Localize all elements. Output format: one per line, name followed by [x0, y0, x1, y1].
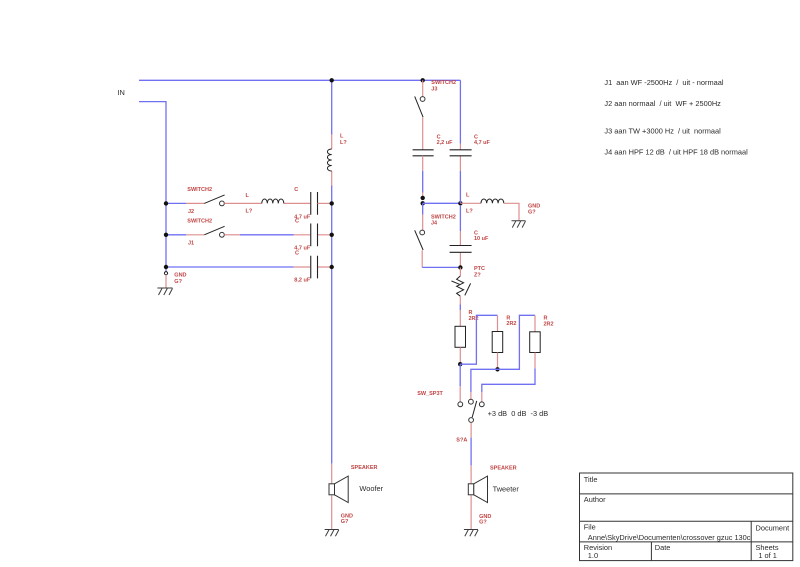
svg-text:SPEAKER: SPEAKER	[351, 465, 378, 471]
PTC pin top	[459, 268, 461, 277]
svg-text:Author: Author	[584, 495, 606, 504]
switch J3 pin top	[422, 80, 424, 96]
svg-text:G?: G?	[341, 519, 349, 525]
ground woofer symbol	[325, 530, 339, 537]
svg-text:2R2: 2R2	[506, 321, 516, 327]
svg-text:C: C	[295, 251, 299, 257]
svg-text:J1: J1	[188, 241, 194, 247]
wire cross link y203	[423, 202, 461, 204]
svg-text:Woofer: Woofer	[359, 484, 383, 493]
svg-text:L?: L?	[466, 209, 473, 215]
wire R2 junction to SP3T middle	[471, 369, 498, 392]
svg-text:SWITCH2: SWITCH2	[187, 218, 212, 224]
capacitor C 2,2uF plates	[413, 150, 434, 156]
capacitor C 4,7uF right pins	[459, 144, 461, 171]
resistor R1 body	[455, 326, 466, 347]
svg-text:2,2 uF: 2,2 uF	[437, 140, 454, 146]
wire R1 junction down to SP3T left	[459, 364, 461, 386]
resistor R3 body	[530, 332, 541, 353]
wire PTC to R1	[459, 305, 461, 311]
resistor R2 pin bottom	[497, 353, 499, 370]
svg-text:J3 aan TW +3000 Hz / uit nor: J3 aan TW +3000 Hz / uit normaal	[604, 127, 721, 136]
capacitor C 4,7uF row J1 plates	[311, 224, 318, 247]
svg-text:Tweeter: Tweeter	[493, 484, 520, 493]
junction dots top bus	[330, 78, 334, 82]
ground left symbol	[157, 288, 172, 295]
junction dots left bus	[164, 201, 168, 205]
switch J3 contact circle	[420, 97, 425, 102]
svg-text:Document: Document	[756, 523, 790, 532]
capacitor C 4,7uF right plates	[450, 150, 472, 156]
wire L to ground	[504, 203, 519, 221]
inductor L coil row J2	[262, 199, 284, 203]
svg-text:1 of 1: 1 of 1	[758, 551, 777, 560]
woofer ground pin	[331, 496, 333, 530]
svg-text:File: File	[584, 522, 596, 531]
switch SW_SP3T blade	[472, 401, 477, 417]
wire R3 bottom to SP3T right	[482, 368, 535, 392]
switch J2 contact circle	[220, 201, 225, 206]
switch J2 blade	[204, 195, 224, 204]
resistor R1 pin bottom	[459, 347, 461, 364]
junction dots x422	[421, 196, 425, 200]
switch J4 contact circle	[420, 230, 425, 235]
PTC Z? zigzag	[457, 276, 464, 296]
svg-text:IN: IN	[118, 88, 125, 97]
svg-text:8,2 uF: 8,2 uF	[294, 278, 311, 284]
wire row J1 left pin	[166, 234, 186, 236]
resistor R3 pin bottom	[534, 353, 536, 369]
wire R2 bottom to R3 top	[498, 315, 536, 369]
junction R2 bottom	[495, 367, 499, 371]
resistor R1 pin top	[459, 310, 461, 326]
ground left terminal circle	[164, 272, 167, 275]
junction R1 bottom	[458, 362, 462, 366]
svg-text:+3 dB 0 dB -3 dB: +3 dB 0 dB -3 dB	[488, 409, 549, 418]
wire row 3	[166, 266, 294, 268]
capacitor C 2,2uF pin bottom	[422, 156, 424, 171]
svg-text:SWITCH2: SWITCH2	[431, 214, 456, 220]
wire row J2 left	[166, 202, 186, 204]
svg-text:L?: L?	[246, 209, 253, 215]
branch L to GND pins	[460, 202, 481, 204]
switch J4 pin top	[422, 203, 424, 214]
svg-text:10 uF: 10 uF	[474, 236, 489, 242]
svg-text:Title: Title	[584, 475, 598, 484]
capacitor C 8,2uF pins	[294, 266, 332, 268]
svg-text:SW_SP3T: SW_SP3T	[417, 391, 443, 397]
junction dots middle bus	[330, 201, 334, 205]
inductor L right coil	[481, 199, 504, 203]
svg-text:J2: J2	[188, 209, 194, 215]
resistor R2 body	[492, 332, 503, 353]
pin to woofer	[331, 464, 333, 484]
svg-text:J3: J3	[431, 87, 437, 93]
switch J2 pin right + inductor L pins	[224, 202, 310, 204]
wire middle bus lower	[331, 186, 333, 464]
switch J4 pin bottom	[421, 250, 423, 267]
switch J2 pin left	[186, 202, 204, 204]
svg-text:C: C	[295, 219, 299, 225]
svg-text:C: C	[294, 187, 298, 193]
switch J1 pin right	[224, 234, 240, 236]
svg-text:G?: G?	[174, 279, 182, 285]
svg-text:G?: G?	[528, 209, 536, 215]
svg-text:SWITCH2: SWITCH2	[431, 80, 456, 86]
capacitor C 8,2uF plates	[311, 256, 318, 279]
title block frame	[580, 473, 793, 561]
wire row J1 middle	[240, 234, 294, 236]
svg-text:PTC: PTC	[474, 266, 485, 272]
tweeter ground pin	[470, 496, 472, 530]
capacitor C 10uF plates	[450, 246, 472, 253]
speaker SPEAKER woofer	[329, 484, 335, 495]
svg-text:GND: GND	[174, 273, 186, 279]
switch J3 pin bottom	[422, 118, 424, 150]
ground tweeter symbol	[464, 530, 478, 537]
svg-text:SWITCH2: SWITCH2	[187, 187, 212, 193]
PTC strike lines	[452, 281, 471, 295]
capacitor C 10uF pins	[459, 231, 461, 267]
svg-text:1.0: 1.0	[588, 551, 598, 560]
svg-text:J1 aan WF -2500Hz / uit - n: J1 aan WF -2500Hz / uit - normaal	[604, 78, 723, 87]
ground left pin	[165, 275, 167, 288]
svg-text:S?A: S?A	[456, 438, 467, 444]
svg-text:2R2: 2R2	[544, 321, 554, 327]
capacitor C 4,7uF row J1 pins	[294, 234, 332, 236]
svg-text:SPEAKER: SPEAKER	[490, 465, 517, 471]
wire top bus	[139, 79, 460, 81]
svg-text:4,7 uF: 4,7 uF	[474, 140, 491, 146]
wire below 2,2uF	[422, 171, 424, 193]
svg-text:J4: J4	[431, 221, 438, 227]
svg-text:J4 aan HPF 12 dB / uit HPF 18: J4 aan HPF 12 dB / uit HPF 18 dB normaal	[604, 148, 748, 157]
inductor L? pins middle bus	[331, 135, 333, 186]
svg-text:2R2: 2R2	[469, 316, 479, 322]
svg-text:Anne\SkyDrive\Documenten\cross: Anne\SkyDrive\Documenten\crossover gzuc …	[588, 533, 751, 542]
wire right bus mid	[459, 171, 461, 231]
switch J1 contact circle	[220, 232, 225, 237]
pin into junction	[422, 193, 424, 198]
PTC pin bottom	[459, 296, 461, 304]
svg-text:G?: G?	[479, 520, 487, 526]
speaker SPEAKER tweeter	[468, 484, 474, 495]
svg-text:Z?: Z?	[474, 272, 481, 278]
switch SW_SP3T terminals	[458, 402, 463, 407]
svg-text:J2 aan normaal / uit WF + 25: J2 aan normaal / uit WF + 2500Hz	[604, 99, 721, 108]
inductor L? coil middle bus	[327, 149, 331, 171]
svg-text:Date: Date	[655, 543, 671, 552]
wire middle bus upper	[331, 80, 333, 134]
wire J4 to right bus	[422, 266, 460, 268]
ground right symbol	[512, 221, 526, 228]
switch J1 blade	[204, 226, 224, 235]
wire IN stub	[139, 102, 166, 273]
wire right bus upper	[459, 80, 461, 144]
wire R1 bottom to R2 top	[460, 315, 497, 364]
switch J3 blade	[415, 96, 423, 117]
capacitor C 4,7uF row J2 plates	[311, 192, 318, 215]
resistor R3 pin top	[534, 315, 536, 332]
capacitor row J2 right pin	[318, 202, 332, 204]
switch J1 pin left	[186, 234, 204, 236]
wire SP3T common down	[470, 423, 472, 438]
svg-text:L?: L?	[340, 140, 347, 146]
resistor R2 pin top	[497, 315, 499, 331]
switch J4 blade	[415, 230, 423, 250]
